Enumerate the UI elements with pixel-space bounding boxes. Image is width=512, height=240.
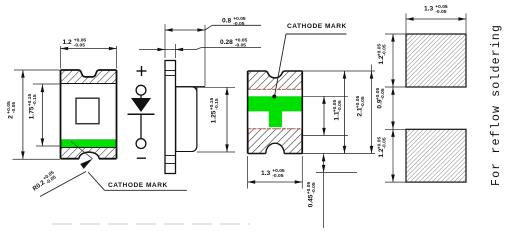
solder pad bottom (hatched) xyxy=(406,129,466,182)
scan artifact faint line xyxy=(52,223,250,225)
bottom view bottom terminal pad (hatched, red border) xyxy=(248,128,303,153)
bottom view bottom notch xyxy=(266,143,284,153)
dimension 1.2 pad height (top) xyxy=(392,34,394,182)
leader R0.2 notch radius xyxy=(40,172,86,197)
dimension 1.2 pad height (bottom) xyxy=(391,129,395,137)
svg-text:1.25: 1.25 xyxy=(211,110,218,123)
svg-text:CATHODE MARK: CATHODE MARK xyxy=(287,23,347,30)
svg-text:-0.05: -0.05 xyxy=(337,100,343,111)
svg-text:-0.05: -0.05 xyxy=(74,43,85,49)
svg-text:1.75: 1.75 xyxy=(29,106,36,119)
svg-text:0.8: 0.8 xyxy=(222,18,231,25)
front view top terminal (hatched) with cathode notch xyxy=(61,70,117,84)
diode symbol xyxy=(140,95,142,98)
side view epoxy lens profile xyxy=(176,87,205,152)
front view terminal boundary line xyxy=(61,83,117,85)
bottom view body outline xyxy=(247,71,249,154)
dimension 1.75 height (inner left) xyxy=(33,83,60,85)
svg-text:-0.15: -0.15 xyxy=(32,94,38,105)
bottom view green cathode T mark xyxy=(248,96,303,127)
svg-text:-0.05: -0.05 xyxy=(235,42,246,48)
dimension 0.28 substrate xyxy=(175,44,177,58)
svg-text:-0.05: -0.05 xyxy=(380,88,386,99)
svg-text:-0.05: -0.05 xyxy=(435,9,446,15)
svg-text:CATHODE MARK: CATHODE MARK xyxy=(108,182,168,189)
svg-text:0.28: 0.28 xyxy=(220,39,233,46)
dimension 0.8 thickness xyxy=(164,24,166,58)
dimension 1.25 epoxy height xyxy=(197,86,235,88)
dimension 1.3 pad width xyxy=(405,14,407,34)
polarity minus sign xyxy=(137,157,146,159)
dimension chain line (bottom view far right) xyxy=(371,65,373,154)
side view terminal bands xyxy=(165,70,176,72)
front view emitting window square xyxy=(76,98,99,124)
dimension 0.45 (bottom view) xyxy=(316,172,357,174)
dimension 2 height (outer left) xyxy=(14,69,60,71)
front view bottom notch xyxy=(79,152,99,159)
side view package profile xyxy=(165,61,176,174)
svg-text:1.3: 1.3 xyxy=(424,6,433,13)
dimension 0.9 pad gap xyxy=(391,87,395,95)
dimension 1.1 (bottom view inner) xyxy=(302,95,348,97)
polarity plus sign xyxy=(137,70,147,72)
dimension 1.2 width (top of front view) xyxy=(60,46,62,69)
svg-text:-0.05: -0.05 xyxy=(311,182,317,193)
diode symbol anode circle xyxy=(136,85,146,95)
svg-text:1.2: 1.2 xyxy=(63,39,72,46)
front view bottom terminal (hatched) xyxy=(61,148,117,159)
front view body outline xyxy=(60,70,62,159)
cathode mark label (front view) xyxy=(88,172,105,190)
svg-text:-0.05: -0.05 xyxy=(381,137,387,148)
svg-text:-0.05: -0.05 xyxy=(381,44,387,55)
front view green cathode stripe xyxy=(61,140,117,148)
svg-text:For reflow soldering: For reflow soldering xyxy=(490,24,503,186)
svg-text:-0.05: -0.05 xyxy=(233,21,244,27)
svg-text:1.3: 1.3 xyxy=(261,170,270,177)
solder pad top (hatched) xyxy=(406,34,466,87)
svg-text:-0.05: -0.05 xyxy=(360,96,366,107)
pad dimension extension lines xyxy=(385,33,406,35)
svg-text:2: 2 xyxy=(8,115,15,119)
svg-text:0.45: 0.45 xyxy=(308,194,315,207)
diode symbol cathode circle xyxy=(136,139,146,149)
svg-text:-0.05: -0.05 xyxy=(272,173,283,179)
dimension 1.3 (bottom view width) xyxy=(247,156,249,189)
dimension 2.1 (bottom view outer) xyxy=(302,70,375,72)
svg-text:-0.05: -0.05 xyxy=(11,102,17,113)
bottom view top terminal pad (hatched, red border) xyxy=(248,71,303,89)
svg-text:-0.15: -0.15 xyxy=(214,98,220,109)
